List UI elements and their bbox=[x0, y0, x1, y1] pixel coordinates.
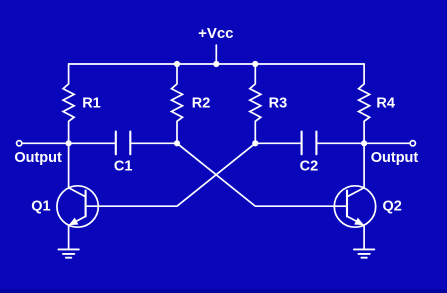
ground Q2 bbox=[354, 249, 374, 257]
wire right output lead bbox=[364, 142, 410, 144]
wire Q1 emitter bbox=[68, 225, 70, 249]
svg-text:Q2: Q2 bbox=[383, 198, 402, 214]
svg-text:R4: R4 bbox=[376, 96, 395, 112]
resistor R4 bbox=[359, 64, 370, 143]
svg-text:+Vcc: +Vcc bbox=[198, 25, 233, 42]
wire +Vcc stem bbox=[215, 45, 217, 64]
svg-text:Output: Output bbox=[14, 150, 62, 166]
wire Q2 emitter bbox=[363, 225, 365, 249]
node dot R1-output bbox=[66, 140, 72, 146]
terminal left output bbox=[17, 141, 22, 146]
wire C2 to R4 node bbox=[316, 142, 364, 144]
wire C1 to node A bbox=[130, 142, 177, 144]
svg-text:R3: R3 bbox=[269, 96, 288, 112]
capacitor C2 bbox=[302, 132, 317, 155]
svg-text:C2: C2 bbox=[300, 159, 319, 175]
svg-text:Output: Output bbox=[371, 150, 419, 166]
wire node B to Q1 base bbox=[98, 143, 255, 206]
svg-text:R2: R2 bbox=[192, 96, 211, 112]
node A dot R2-C1 bbox=[174, 140, 180, 146]
resistor R3 bbox=[250, 64, 261, 143]
node dot rail-R3 bbox=[252, 61, 258, 67]
resistor R2 bbox=[172, 64, 183, 143]
node dot rail-R2 bbox=[174, 61, 180, 67]
svg-text:Q1: Q1 bbox=[31, 198, 50, 214]
transistor Q1 bbox=[57, 186, 98, 227]
terminal right output bbox=[410, 141, 415, 146]
node dot rail-Vcc bbox=[213, 61, 219, 67]
svg-text:R1: R1 bbox=[82, 96, 101, 112]
node B dot R3-C2 bbox=[252, 140, 258, 146]
ground Q1 bbox=[58, 249, 78, 257]
wire Q2 collector bbox=[363, 143, 365, 188]
wire left output lead bbox=[22, 142, 116, 144]
capacitor C1 bbox=[116, 132, 131, 155]
wire node B to C2 bbox=[255, 142, 301, 144]
resistor R1 bbox=[63, 64, 74, 143]
node dot R4-output bbox=[361, 140, 367, 146]
wire node A to Q2 base bbox=[177, 143, 334, 206]
wire Q1 collector bbox=[68, 143, 70, 188]
svg-text:C1: C1 bbox=[114, 159, 133, 175]
wire top supply rail bbox=[69, 63, 365, 65]
transistor Q2 bbox=[334, 186, 375, 227]
